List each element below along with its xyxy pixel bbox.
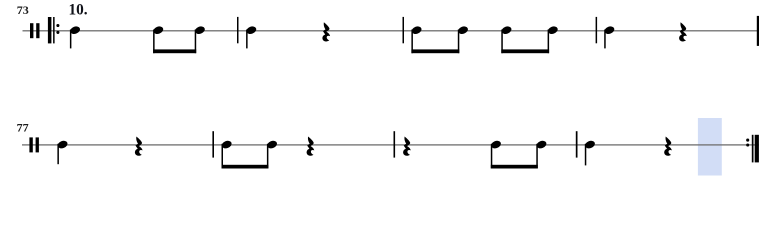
beamed eighth pair m75 beat1 <box>411 25 469 53</box>
svg-text:10.: 10. <box>69 2 88 19</box>
quarter note m77 beat1 <box>57 139 69 164</box>
svg-text:77: 77 <box>17 121 29 135</box>
beamed eighth pair m75 beat2 <box>500 25 558 53</box>
quarter rest m78 beat2 <box>307 137 315 156</box>
barline m73/74 <box>237 17 239 43</box>
staff line (top system) <box>23 30 759 31</box>
quarter rest m76 beat2 <box>679 22 687 41</box>
staff line (bottom system) <box>22 144 759 145</box>
quarter note m76 beat1 <box>603 25 615 48</box>
quarter note m74 beat1 <box>245 25 257 48</box>
quarter rest m74 beat2 <box>322 22 330 41</box>
percussion clef (bottom) <box>29 137 39 152</box>
beamed eighth pair m78 beat1 <box>221 139 278 168</box>
barline m77/78 <box>212 131 214 157</box>
quarter rest m79 beat1 <box>403 137 411 156</box>
quarter rest m77 beat2 <box>135 137 143 156</box>
quarter note m73 beat1 <box>69 25 81 48</box>
svg-text:73: 73 <box>17 3 29 17</box>
quarter note m80 beat1 <box>584 139 596 165</box>
percussion clef (top) <box>30 23 40 38</box>
barline m75/76 <box>596 17 598 43</box>
beamed eighth pair m79 beat2 <box>490 139 548 168</box>
barline m78/79 <box>394 131 396 157</box>
selection highlight (bottom system, drawn first so ink overlays) <box>698 118 722 176</box>
system end barline (top) <box>757 16 759 46</box>
quarter rest m80 beat2 <box>664 137 672 156</box>
barline m74/75 <box>403 17 405 43</box>
end repeat barline <box>746 135 759 163</box>
barline m79/80 <box>576 131 578 157</box>
beamed eighth pair m73 beat2 <box>152 25 206 53</box>
start repeat barline <box>48 17 60 43</box>
